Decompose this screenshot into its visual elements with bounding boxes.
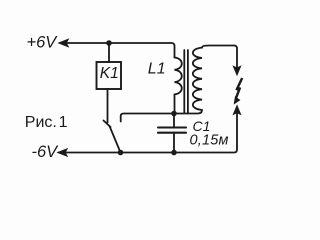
arrow down spark top (233, 66, 241, 75)
transformer L1 core (184, 50, 188, 113)
svg-text:+6V: +6V (27, 34, 59, 52)
contact fixed tick (104, 121, 111, 128)
transformer L1 secondary winding (177, 46, 234, 114)
wire top rail +6V (60, 43, 175, 58)
spark gap lightning bolt (236, 78, 242, 98)
capacitor C1 (158, 128, 186, 133)
wire spark bottom to rail (59, 114, 238, 153)
svg-text:K1: K1 (100, 65, 119, 82)
transformer L1 primary winding (175, 58, 182, 114)
wire K1 top lead (108, 43, 110, 62)
wire C1 bottom lead (173, 133, 175, 153)
node junction above K1 (106, 40, 112, 46)
contact blade K1.1 (110, 126, 121, 153)
node A junction (171, 111, 177, 117)
svg-text:-6V: -6V (32, 143, 60, 161)
wire K1 bottom lead (107, 89, 109, 123)
arrow up spark bottom (233, 105, 241, 114)
svg-text:L1: L1 (148, 60, 166, 77)
relay K1 (97, 62, 122, 89)
node blade pivot (118, 150, 124, 156)
svg-text:0,15м: 0,15м (190, 132, 229, 148)
wire secondary top corner to spark (234, 46, 237, 68)
wire contact to node A (121, 114, 174, 122)
svg-text:Рис.1: Рис.1 (25, 114, 68, 131)
arrow -6V (58, 149, 68, 157)
arrow +6V (59, 39, 69, 47)
wire C1 top lead (173, 114, 175, 128)
node C1 bottom (171, 150, 177, 156)
